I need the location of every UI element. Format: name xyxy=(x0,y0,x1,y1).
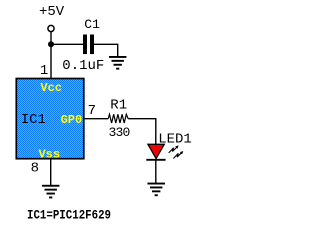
svg-text:+5V: +5V xyxy=(39,4,65,20)
svg-text:IC1: IC1 xyxy=(21,112,46,128)
ground (LED1) xyxy=(147,183,165,197)
LED1 light arrow 1 xyxy=(169,145,179,153)
svg-text:8: 8 xyxy=(31,161,39,177)
svg-text:Vss: Vss xyxy=(38,147,60,161)
wire resistor to LED1 xyxy=(128,119,156,145)
svg-text:330: 330 xyxy=(109,125,130,140)
LED1 cathode bar xyxy=(146,159,165,161)
wire pin 7 to resistor xyxy=(85,118,109,120)
junction dot xyxy=(48,41,54,47)
svg-text:R1: R1 xyxy=(110,97,127,113)
wire LED1 cathode to ground xyxy=(155,160,157,183)
svg-text:7: 7 xyxy=(88,103,96,119)
svg-text:IC1=PIC12F629: IC1=PIC12F629 xyxy=(27,207,111,222)
svg-text:C1: C1 xyxy=(84,17,100,32)
ground (C1) xyxy=(109,56,127,70)
wire +5V terminal down to pin 1 xyxy=(50,32,52,78)
wire pin 8 to ground xyxy=(50,159,52,185)
resistor R1 zigzag xyxy=(108,114,128,123)
wire C1 right plate to ground xyxy=(94,44,118,56)
LED1 light arrow 2 xyxy=(173,151,183,159)
capacitor C1 right plate xyxy=(90,35,94,55)
svg-text:GP0: GP0 xyxy=(61,113,83,127)
wire junction to C1 left plate xyxy=(51,43,83,45)
LED1 triangle (anode) xyxy=(148,144,164,158)
svg-text:1: 1 xyxy=(40,63,48,79)
ground (pin 8) xyxy=(42,185,60,199)
svg-text:Vcc: Vcc xyxy=(40,81,62,95)
svg-text:0.1uF: 0.1uF xyxy=(62,58,104,74)
IC1 body PIC12F629 xyxy=(16,79,84,159)
capacitor C1 left plate xyxy=(83,35,87,55)
+5V terminal circle xyxy=(48,25,54,31)
